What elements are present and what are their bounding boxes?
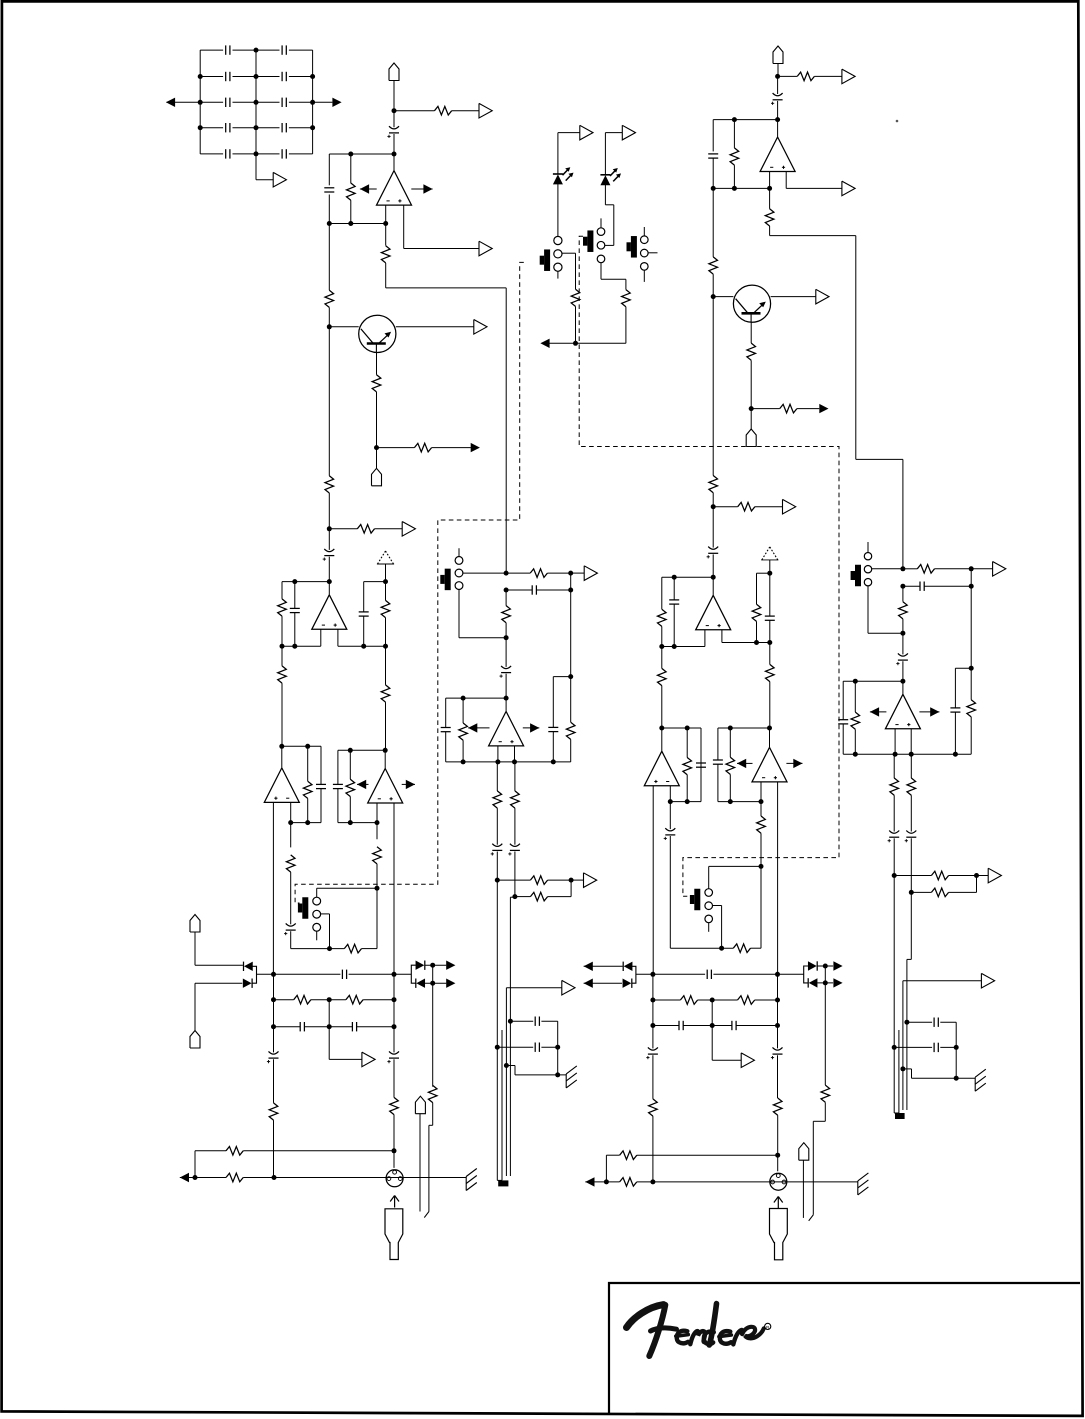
- wire: [652, 1116, 654, 1182]
- wire: [329, 528, 357, 530]
- wire: [686, 775, 688, 802]
- signal out triangle: [584, 566, 597, 581]
- wire: [769, 226, 771, 236]
- wire: [328, 154, 330, 185]
- junction: [461, 759, 466, 764]
- resistor R49: [752, 604, 761, 621]
- wire: [717, 728, 719, 760]
- dashed link ch2: [579, 236, 839, 896]
- wire to loop block: [902, 459, 904, 568]
- capacitor C19 polarized: [387, 1051, 399, 1063]
- wire: [712, 1025, 732, 1027]
- wire: [311, 999, 329, 1001]
- wire: [497, 746, 499, 762]
- title block box: [609, 1283, 1080, 1413]
- wire: [233, 127, 257, 129]
- wire: [506, 1065, 515, 1067]
- capacitor C41: [696, 763, 706, 767]
- wire: [711, 1026, 713, 1061]
- wire: [282, 581, 329, 583]
- junction: [710, 1023, 715, 1028]
- wire: [637, 1181, 858, 1183]
- wire: [307, 746, 309, 781]
- wire: [854, 681, 856, 712]
- resistor R5: [372, 375, 381, 392]
- wire: [924, 585, 971, 587]
- signal out triangle: [816, 289, 829, 304]
- wire: [712, 507, 714, 548]
- connector J6: [415, 1096, 425, 1114]
- wire U9 input to limiter rail: [652, 786, 654, 975]
- junction: [892, 873, 897, 878]
- wire: [842, 681, 844, 720]
- wire: [903, 980, 982, 982]
- wire: [458, 590, 460, 638]
- junction: [711, 186, 716, 191]
- resistor R20: [511, 791, 520, 808]
- arrow out left: [166, 98, 175, 107]
- wire: [704, 630, 706, 647]
- wire: [411, 188, 432, 190]
- capacitor Cg3: [226, 72, 230, 81]
- resistor R7: [325, 476, 334, 493]
- wire: [432, 447, 471, 449]
- resistor R9: [571, 289, 580, 306]
- junction: [775, 117, 780, 122]
- switch S6: [851, 565, 861, 587]
- wire: [320, 629, 322, 646]
- wire: [777, 1055, 779, 1098]
- junction: [504, 696, 509, 701]
- resistor R54: [899, 602, 908, 619]
- wire: [256, 49, 280, 51]
- arrow right: [446, 979, 455, 988]
- wire: [718, 801, 761, 803]
- wire: [605, 1155, 607, 1182]
- switch S4: [440, 569, 450, 591]
- transistor Q2: [733, 285, 770, 322]
- junction: [383, 579, 388, 584]
- junction: [732, 186, 737, 191]
- wire: [329, 914, 331, 949]
- arrow right U1: [423, 184, 432, 193]
- wire: [329, 223, 385, 225]
- wire: [718, 727, 770, 729]
- wire: [195, 1150, 226, 1152]
- wire: [940, 1046, 956, 1048]
- junction: [775, 74, 780, 79]
- wire: [396, 326, 474, 328]
- wire: [514, 808, 516, 845]
- resistor R16: [566, 722, 575, 739]
- wire: [385, 224, 387, 246]
- wire: [376, 803, 378, 823]
- junction: [254, 125, 259, 130]
- wire: [541, 1046, 557, 1048]
- wire: [570, 677, 572, 723]
- capacitor C32 polarized: [707, 547, 719, 559]
- wire: [935, 568, 972, 570]
- wire: [712, 120, 714, 152]
- wire: [712, 188, 714, 257]
- wire: [712, 297, 714, 476]
- speaker cable wire: [902, 981, 904, 1110]
- junction: [254, 48, 259, 53]
- wire: [729, 728, 731, 757]
- wire: [289, 49, 313, 51]
- wire: [328, 307, 330, 326]
- wire: [557, 184, 559, 237]
- plug arrow: [774, 1197, 783, 1209]
- junction: [495, 878, 500, 883]
- junction: [348, 221, 353, 226]
- wire: [514, 762, 516, 791]
- wire: [912, 1077, 976, 1079]
- wire: [661, 577, 663, 609]
- wire: [328, 195, 330, 224]
- wire: [497, 879, 530, 881]
- wire: [778, 75, 798, 77]
- wire: [506, 572, 530, 574]
- node A junction: [392, 152, 397, 157]
- resistor R53: [967, 700, 976, 717]
- junction: [461, 696, 466, 701]
- resistor R27: [346, 995, 363, 1004]
- wire: [393, 1115, 395, 1151]
- junction: [711, 504, 716, 509]
- capacitor Cg1: [226, 45, 230, 54]
- resistor R64: [649, 1099, 658, 1116]
- wire: [497, 1046, 533, 1048]
- wire: [777, 974, 779, 1000]
- diode CR7: [808, 961, 817, 970]
- resistor R10: [622, 290, 631, 307]
- wire: [256, 153, 280, 155]
- wire: [328, 1027, 330, 1060]
- wire: [273, 1059, 275, 1103]
- wire: [669, 836, 671, 948]
- junction: [555, 1072, 560, 1077]
- capacitor C7: [548, 727, 558, 731]
- wire: [200, 101, 223, 103]
- wire: [393, 1027, 395, 1053]
- wire: [737, 762, 753, 764]
- junction: [953, 752, 958, 757]
- wire: [428, 1125, 430, 1211]
- diode pair bracket: [632, 966, 636, 983]
- wire: [940, 1021, 956, 1023]
- wire: [273, 1000, 275, 1027]
- wire: [462, 740, 464, 762]
- wire: [468, 727, 489, 729]
- diode CR2: [243, 979, 252, 988]
- wire to op-amp U2: [328, 582, 330, 595]
- wire: [233, 49, 257, 51]
- junction: [374, 445, 379, 450]
- capacitor C50: [934, 1043, 938, 1052]
- wire: [777, 1000, 779, 1026]
- junction: [430, 981, 435, 986]
- wire: [329, 1058, 362, 1060]
- wire: [506, 589, 532, 591]
- resistor R24: [373, 847, 382, 864]
- junction: [569, 878, 574, 883]
- wire to op-amp U1: [393, 154, 395, 171]
- wire: [506, 987, 561, 989]
- wire: [750, 360, 752, 408]
- junction: [383, 644, 388, 649]
- junction: [254, 100, 259, 105]
- wire: [281, 683, 283, 746]
- wire: [712, 999, 737, 1001]
- wire: [769, 573, 771, 616]
- resistor R60: [757, 816, 766, 833]
- wire: [386, 287, 507, 289]
- wire: [281, 582, 283, 599]
- wire: [180, 1177, 226, 1179]
- junction: [504, 571, 509, 576]
- junction: [650, 1179, 655, 1184]
- connector J1: [389, 63, 399, 81]
- wire: [357, 783, 369, 785]
- junction: [710, 998, 715, 1003]
- wire: [842, 724, 844, 754]
- wire: [570, 880, 572, 897]
- wire: [757, 572, 770, 574]
- wire: [290, 802, 292, 822]
- resistor R69: [931, 871, 948, 880]
- junction: [361, 644, 366, 649]
- wire: [255, 154, 257, 180]
- wire: [317, 887, 377, 889]
- capacitor C48 polarized: [771, 1047, 783, 1059]
- capacitor C37 polarized: [896, 653, 908, 665]
- capacitor C11 polarized: [508, 844, 520, 856]
- junction: [732, 117, 737, 122]
- resistor R51: [766, 664, 775, 681]
- wire: [604, 133, 606, 175]
- wire: [393, 974, 395, 999]
- wire: [797, 408, 819, 410]
- capacitor Cg10: [282, 149, 286, 158]
- wire: [320, 746, 322, 784]
- resistor R23 pot: [346, 779, 355, 796]
- buffer out triangle: [273, 172, 286, 187]
- signal out triangle: [988, 868, 1001, 883]
- speaker cable wire: [906, 959, 908, 1110]
- junction: [272, 1175, 277, 1180]
- plug P2 body: [770, 1209, 788, 1260]
- resistor R19: [493, 791, 502, 808]
- wire: [200, 127, 223, 129]
- capacitor C43: [713, 760, 723, 764]
- junction: [668, 799, 673, 804]
- wire: [662, 727, 701, 729]
- capacitor C18 polarized: [267, 1051, 279, 1063]
- wire: [910, 838, 912, 892]
- diode CR3: [416, 961, 425, 970]
- wire: [786, 187, 842, 189]
- wire: [562, 252, 575, 254]
- wire: [756, 573, 758, 604]
- wire: [814, 75, 842, 77]
- wire: [652, 1000, 654, 1026]
- speaker cable wire: [893, 876, 895, 1114]
- wire: [195, 982, 242, 984]
- arrow out left: [584, 962, 593, 971]
- junction: [719, 946, 724, 951]
- wire: [497, 1179, 502, 1181]
- wire: [496, 852, 498, 881]
- wire: [195, 964, 243, 966]
- wire: [403, 205, 405, 248]
- wire: [376, 823, 378, 840]
- capacitor C31: [708, 154, 718, 158]
- wire: [328, 1000, 330, 1027]
- wire: [256, 127, 280, 129]
- junction: [198, 125, 203, 130]
- junction: [650, 998, 655, 1003]
- wire: [329, 1026, 352, 1028]
- plug P1 body: [385, 1209, 403, 1260]
- plug arrow: [390, 1196, 399, 1208]
- power symbol V+: [761, 547, 778, 560]
- wire: [910, 729, 912, 755]
- resistor R33: [530, 876, 547, 885]
- wire: [393, 1151, 395, 1168]
- capacitor C34: [765, 616, 775, 620]
- junction: [650, 972, 655, 977]
- switch S2: [583, 230, 593, 252]
- wire: [553, 676, 570, 678]
- wire to op-amp U8: [902, 681, 904, 694]
- signal out triangle: [842, 181, 855, 196]
- wire: [541, 1020, 557, 1022]
- wire: [363, 582, 365, 612]
- junction: [508, 1019, 513, 1024]
- wire: [717, 764, 719, 801]
- wire: [316, 888, 318, 897]
- capacitor C15: [342, 970, 346, 979]
- op-amp U8: [885, 694, 920, 729]
- wire: [976, 876, 978, 893]
- junction: [254, 151, 259, 156]
- arrow right: [833, 961, 842, 970]
- wire: [600, 263, 602, 280]
- wire: [605, 244, 614, 246]
- wire: [769, 172, 771, 189]
- junction: [495, 1045, 500, 1050]
- junction: [711, 575, 716, 580]
- wire: [256, 101, 280, 103]
- op-amp U6: [760, 137, 795, 172]
- resistor R55 pot: [851, 712, 860, 729]
- resistor R28: [269, 1103, 278, 1120]
- resistor R45: [780, 404, 797, 413]
- wire: [425, 964, 447, 966]
- wire: [200, 76, 223, 78]
- wire: [894, 1112, 899, 1114]
- junction: [280, 644, 285, 649]
- wire: [313, 101, 333, 103]
- wire: [903, 585, 920, 587]
- wire: [770, 235, 856, 237]
- wire: [751, 408, 780, 410]
- wire: [290, 872, 292, 924]
- wire: [557, 1021, 559, 1075]
- resistor R26: [294, 995, 311, 1004]
- wire: [971, 568, 993, 570]
- wire: [376, 392, 378, 448]
- junction: [327, 946, 332, 951]
- junction: [327, 997, 332, 1002]
- junction: [568, 571, 573, 576]
- wire: [243, 1177, 466, 1179]
- wire: [576, 342, 626, 344]
- connector J4: [190, 1031, 200, 1049]
- resistor R21: [303, 781, 312, 798]
- wire: [771, 296, 816, 298]
- capacitor C33: [669, 600, 679, 604]
- resistor R65: [773, 1098, 782, 1115]
- wire: [194, 932, 196, 965]
- wire: [570, 573, 572, 590]
- wire: [363, 999, 394, 1001]
- wire: [233, 153, 257, 155]
- wire: [769, 643, 771, 665]
- junction: [685, 799, 690, 804]
- wire: [713, 973, 777, 975]
- wire: [571, 879, 584, 881]
- wire: [637, 1154, 778, 1156]
- wire: [601, 278, 626, 280]
- wire: [733, 120, 735, 148]
- wire: [777, 76, 779, 94]
- wire: [700, 767, 702, 801]
- wire: [425, 982, 446, 984]
- resistor R11: [278, 599, 287, 616]
- wire: [328, 493, 330, 529]
- junction: [749, 406, 754, 411]
- wire: [256, 179, 273, 181]
- junction: [392, 997, 397, 1002]
- junction: [969, 566, 974, 571]
- junction: [348, 820, 353, 825]
- junction: [775, 1153, 780, 1158]
- junction: [775, 998, 780, 1003]
- wire: [307, 798, 309, 822]
- wire: [505, 638, 507, 667]
- wire: [281, 646, 283, 666]
- junction: [348, 748, 353, 753]
- wire: [458, 548, 460, 556]
- wire: [385, 646, 387, 685]
- print artifact dot: [896, 120, 899, 123]
- speaker cable wire: [496, 880, 498, 1180]
- switch S1: [540, 249, 550, 271]
- wire: [393, 81, 395, 111]
- wire: [200, 49, 223, 51]
- capacitor Cg6: [282, 98, 286, 107]
- junction: [759, 799, 764, 804]
- wire: [584, 965, 623, 967]
- wire: [290, 823, 292, 848]
- wire: [338, 822, 377, 824]
- wire: [970, 668, 972, 700]
- junction: [305, 744, 310, 749]
- junction: [974, 873, 979, 878]
- resistor R50: [658, 668, 667, 685]
